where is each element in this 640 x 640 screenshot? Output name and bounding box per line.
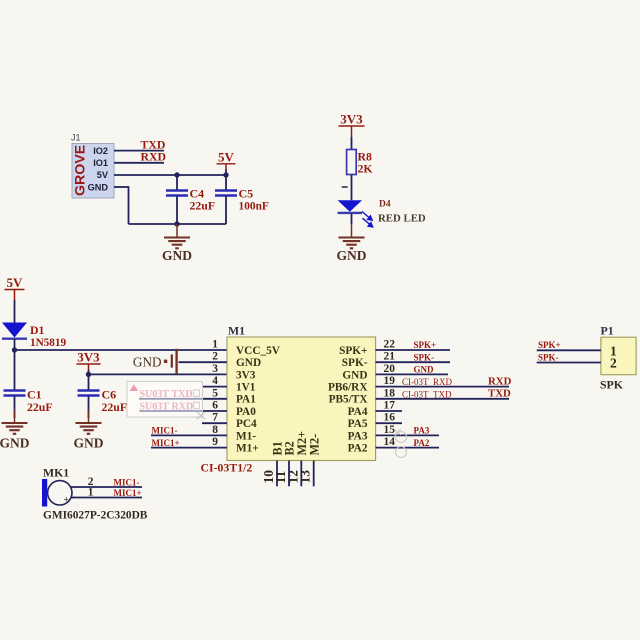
svg-text:22uF: 22uF <box>27 400 53 414</box>
wire D1 to node <box>14 339 16 350</box>
svg-text:17: 17 <box>384 400 396 412</box>
svg-text:SU03T RXD: SU03T RXD <box>140 401 194 412</box>
svg-text:GND: GND <box>162 248 192 263</box>
net label PA3 (pin 15) <box>414 426 430 436</box>
svg-text:9: 9 <box>212 436 218 448</box>
diode D1 <box>2 323 27 339</box>
wire P1 pin 2 <box>537 362 601 364</box>
net label SPK+ (pin 22) <box>414 340 437 350</box>
pin number 22 <box>384 339 396 351</box>
svg-text:GND: GND <box>337 248 367 263</box>
net label GND (pin 20) <box>414 365 435 375</box>
wire M1 pin 21 <box>376 361 450 363</box>
power label 5V <box>217 150 236 176</box>
svg-text:1: 1 <box>88 486 94 498</box>
capacitor C4 <box>166 175 188 224</box>
pin name 1V1 <box>236 382 256 394</box>
net label MIC1+ (MK1) <box>114 488 142 498</box>
microphone MK1 designator <box>43 466 69 480</box>
svg-text:CI-03T1/2: CI-03T1/2 <box>201 461 253 475</box>
svg-text:3V3: 3V3 <box>236 369 256 381</box>
resistor R8 <box>347 150 357 175</box>
pin number 13 <box>298 470 313 484</box>
svg-text:100nF: 100nF <box>239 201 269 213</box>
power label 5V (left) <box>5 275 25 300</box>
pin number 17 <box>384 400 396 412</box>
svg-text:2: 2 <box>610 356 617 371</box>
pin number 10 <box>261 470 276 484</box>
svg-text:PA0: PA0 <box>236 406 256 418</box>
net text CI-03T TXD (pin 18) <box>402 389 452 399</box>
label GMI6027P-2C320DB <box>43 510 148 522</box>
net label RXD <box>141 150 167 164</box>
svg-text:SPK: SPK <box>600 378 624 392</box>
wire D4 to ground <box>351 214 353 225</box>
svg-text:PA5: PA5 <box>348 418 368 430</box>
pin number 18 <box>384 387 396 399</box>
svg-text:D4: D4 <box>379 200 391 210</box>
svg-text:SPK-: SPK- <box>342 357 368 369</box>
pin number 1 <box>212 339 218 351</box>
svg-text:MK1: MK1 <box>43 466 69 480</box>
pin name B1 <box>271 441 285 455</box>
pin number 8 <box>212 424 218 436</box>
svg-text:7: 7 <box>212 412 218 424</box>
pin name PA2 <box>348 443 368 455</box>
connector P1 body <box>601 337 636 375</box>
wire M1 pin 16 <box>376 422 402 424</box>
LED arrows <box>362 212 373 227</box>
net label PA2 (pin 14) <box>414 438 430 448</box>
svg-text:SPK-: SPK- <box>538 352 559 362</box>
wire M1 pin 12 <box>300 461 302 487</box>
svg-text:GROVE: GROVE <box>73 145 89 196</box>
power label 3V3 (left) <box>77 350 101 375</box>
pin name PB6/RX <box>328 382 368 394</box>
svg-text:1: 1 <box>212 339 218 351</box>
wire J1 GND to ground rail <box>114 186 226 224</box>
wire R8 to D4 <box>351 175 353 201</box>
svg-text:D1: D1 <box>30 323 45 337</box>
svg-text:16: 16 <box>384 412 396 424</box>
MK1 pin number 2 <box>88 476 94 488</box>
wire IO1 to RXD <box>114 162 164 164</box>
pin number 5 <box>212 387 218 399</box>
pin number 2 <box>212 351 218 363</box>
svg-text:18: 18 <box>384 387 396 399</box>
pin number 16 <box>384 412 396 424</box>
svg-text:15: 15 <box>384 424 396 436</box>
svg-text:SPK-: SPK- <box>414 352 435 362</box>
svg-text:4: 4 <box>212 375 218 387</box>
label SPK <box>600 378 624 392</box>
wire 5V to D1 <box>14 300 16 323</box>
svg-text:PA1: PA1 <box>236 394 256 406</box>
junction 5V/C5 <box>223 172 228 177</box>
connector J1 <box>71 133 114 199</box>
wire P1 pin 1 <box>537 349 601 351</box>
label C4 22uF <box>190 187 216 213</box>
svg-text:J1: J1 <box>71 133 81 143</box>
svg-text:RXD: RXD <box>488 375 512 387</box>
svg-text:M1-: M1- <box>236 430 256 442</box>
label C5 100nF <box>239 187 269 213</box>
svg-text:SPK+: SPK+ <box>339 345 367 357</box>
pin number 21 <box>384 351 396 363</box>
wire IO2 to TXD <box>114 150 164 152</box>
pin name M1+ <box>236 443 259 455</box>
MK1 pin number 1 <box>88 486 94 498</box>
svg-text:5V: 5V <box>218 150 235 165</box>
svg-text:PC4: PC4 <box>236 418 257 430</box>
label CI-03T1/2 <box>201 461 253 475</box>
ground symbol (LED) <box>337 224 367 263</box>
svg-text:3V3: 3V3 <box>77 350 100 365</box>
svg-text:21: 21 <box>384 351 396 363</box>
op-amp U1 equivalent: IC body M1 <box>227 337 376 461</box>
junction 5V/C4 <box>174 172 179 177</box>
svg-text:8: 8 <box>212 424 218 436</box>
svg-text:1V1: 1V1 <box>236 382 256 394</box>
pin name M2+ <box>295 431 309 456</box>
ground symbol (J1 section) <box>162 224 192 263</box>
svg-text:22: 22 <box>384 339 396 351</box>
pin name GND <box>236 357 261 369</box>
pin name PB5/TX <box>329 394 369 406</box>
pin name PA4 <box>348 406 368 418</box>
svg-text:3: 3 <box>212 363 218 375</box>
svg-text:2K: 2K <box>358 162 374 176</box>
svg-text:5: 5 <box>212 387 218 399</box>
wire M1 pin 18 <box>376 398 509 400</box>
capacitor C5 <box>215 175 237 224</box>
pin name PA3 <box>348 430 368 442</box>
svg-text:GND: GND <box>236 357 261 369</box>
svg-text:SPK+: SPK+ <box>538 340 561 350</box>
pin number 14 <box>384 436 396 448</box>
wire M1 pin 20 <box>376 373 448 375</box>
pin number 11 <box>273 470 288 483</box>
svg-text:PA2: PA2 <box>414 438 430 448</box>
ground symbol (C6) <box>74 410 104 451</box>
wire M1 pin 11 <box>288 461 290 487</box>
svg-text:2: 2 <box>212 351 218 363</box>
svg-text:SU03T TXD: SU03T TXD <box>140 389 193 400</box>
svg-text:PA2: PA2 <box>348 443 368 455</box>
svg-text:GND: GND <box>133 355 162 370</box>
wire M1 pin 13 <box>313 461 315 487</box>
svg-text:M2-: M2- <box>307 434 321 456</box>
svg-text:19: 19 <box>384 375 396 387</box>
junction ground rail <box>174 221 179 226</box>
watermark rings <box>394 429 407 458</box>
pin name PC4 <box>236 418 257 430</box>
net label SPK- (pin 21) <box>414 352 435 362</box>
svg-text:C5: C5 <box>239 187 254 201</box>
pin number 15 <box>384 424 396 436</box>
label R8 2K <box>358 150 374 176</box>
wire M1 pin 22 <box>376 349 450 351</box>
wire VCC_5V net to M1 pin 1 <box>15 349 228 351</box>
svg-text:CI-03T RXD: CI-03T RXD <box>402 377 452 387</box>
svg-text:PA3: PA3 <box>348 430 368 442</box>
svg-text:PA4: PA4 <box>348 406 368 418</box>
ground symbol (M1 pin 2, rotated) <box>133 349 177 374</box>
svg-text:GND: GND <box>342 369 367 381</box>
pin name PA0 <box>236 406 256 418</box>
junction 3V3/C6 <box>86 372 91 377</box>
label C1 22uF <box>27 388 53 415</box>
svg-text:IO1: IO1 <box>93 158 108 168</box>
wire M1 pin 2 <box>179 361 228 363</box>
label D1 1N5819 <box>30 323 66 349</box>
microphone MK1 symbol <box>42 479 72 507</box>
pin name SPK- <box>342 357 368 369</box>
pin number 12 <box>285 470 300 484</box>
pin number 4 <box>212 375 218 387</box>
pin number 7 <box>212 412 218 424</box>
pin name M2- <box>307 434 321 456</box>
watermark box <box>127 382 205 420</box>
LED D4 <box>338 200 373 227</box>
svg-text:1N5819: 1N5819 <box>30 337 66 349</box>
svg-text:GND: GND <box>88 182 109 192</box>
wire M1 pin 10 <box>276 461 278 487</box>
pin name PA1 <box>236 394 256 406</box>
pin name B2 <box>283 441 297 455</box>
label C6 22uF <box>102 388 128 415</box>
stub mark <box>342 186 348 188</box>
svg-text:MIC1+: MIC1+ <box>114 488 142 498</box>
capacitor C1 <box>4 350 26 418</box>
svg-text:6: 6 <box>212 400 218 412</box>
pin number 6 <box>212 400 218 412</box>
wire M1 pin 19 <box>376 386 509 388</box>
svg-text:13: 13 <box>298 470 313 484</box>
net label SPK+ (P1) <box>538 340 561 350</box>
svg-text:M1+: M1+ <box>236 443 259 455</box>
wire M1 pin 17 <box>376 410 402 412</box>
P1 pin 2 number <box>610 356 617 371</box>
svg-text:22uF: 22uF <box>190 199 216 213</box>
svg-text:GND: GND <box>414 365 435 375</box>
wire MK1 pin 2 <box>71 486 143 488</box>
pin name GND <box>342 369 367 381</box>
svg-text:RXD: RXD <box>141 150 167 164</box>
svg-text:VCC_5V: VCC_5V <box>236 345 281 357</box>
wire M1 pin 4 <box>202 386 227 388</box>
connector P1 designator <box>601 324 614 338</box>
svg-text:MIC1+: MIC1+ <box>152 438 180 448</box>
wire MK1 pin 1 <box>71 497 143 499</box>
svg-text:IO2: IO2 <box>93 146 108 156</box>
P1 pin 1 number <box>610 343 617 358</box>
net label RXD (right) <box>488 375 512 387</box>
svg-text:GND: GND <box>0 436 30 451</box>
net text CI-03T RXD (pin 19) <box>402 377 452 387</box>
svg-text:5V: 5V <box>7 275 24 290</box>
svg-text:20: 20 <box>384 363 396 375</box>
wire M1 pin 9 <box>151 447 227 449</box>
svg-text:RED LED: RED LED <box>378 213 426 225</box>
net label MIC1- (pin 8) <box>152 426 178 436</box>
wire M1 pin 5 <box>139 398 227 400</box>
svg-text:+: + <box>64 496 69 506</box>
svg-text:MIC1-: MIC1- <box>152 426 178 436</box>
power label 3V3 <box>339 112 365 138</box>
wire M1 pin 14 <box>376 447 439 449</box>
wire M1 pin 6 <box>140 410 228 412</box>
svg-text:MIC1-: MIC1- <box>114 477 140 487</box>
pin number 3 <box>212 363 218 375</box>
net label TXD (right) <box>488 388 511 400</box>
pin number 19 <box>384 375 396 387</box>
wire 3V3 to R8 <box>351 137 353 150</box>
label D4 RED LED <box>378 200 426 225</box>
wire 5V rail <box>114 174 226 176</box>
wire M1 pin 7 <box>202 422 227 424</box>
svg-text:CI-03T TXD: CI-03T TXD <box>402 389 452 399</box>
svg-text:GND: GND <box>74 436 104 451</box>
svg-text:PA3: PA3 <box>414 426 430 436</box>
IC M1 designator <box>228 324 245 338</box>
svg-text:5V: 5V <box>97 170 109 180</box>
net label MIC1- (MK1) <box>114 477 140 487</box>
pin number 20 <box>384 363 396 375</box>
svg-text:PB5/TX: PB5/TX <box>329 394 369 406</box>
pin name M1- <box>236 430 256 442</box>
svg-text:SPK+: SPK+ <box>414 340 437 350</box>
pin name VCC_5V <box>236 345 281 357</box>
svg-text:GMI6027P-2C320DB: GMI6027P-2C320DB <box>43 510 148 522</box>
pin name 3V3 <box>236 369 256 381</box>
svg-text:M1: M1 <box>228 324 245 338</box>
svg-text:PB6/RX: PB6/RX <box>328 382 368 394</box>
net label TXD <box>141 137 166 151</box>
svg-text:3V3: 3V3 <box>340 112 363 127</box>
svg-text:P1: P1 <box>601 324 614 338</box>
svg-text:22uF: 22uF <box>102 400 128 414</box>
pin number 9 <box>212 436 218 448</box>
pin name SPK+ <box>339 345 367 357</box>
ground symbol (C1) <box>0 410 30 451</box>
capacitor C6 <box>78 374 100 418</box>
pin name PA5 <box>348 418 368 430</box>
svg-text:TXD: TXD <box>488 388 511 400</box>
net label MIC1+ (pin 9) <box>152 438 180 448</box>
svg-text:14: 14 <box>384 436 396 448</box>
junction D1/C1 <box>12 347 17 352</box>
wire 3V3 net to M1 pin 3 <box>89 373 228 375</box>
net label SPK- (P1) <box>538 352 559 362</box>
wire M1 pin 15 <box>376 434 439 436</box>
wire M1 pin 8 <box>151 434 227 436</box>
